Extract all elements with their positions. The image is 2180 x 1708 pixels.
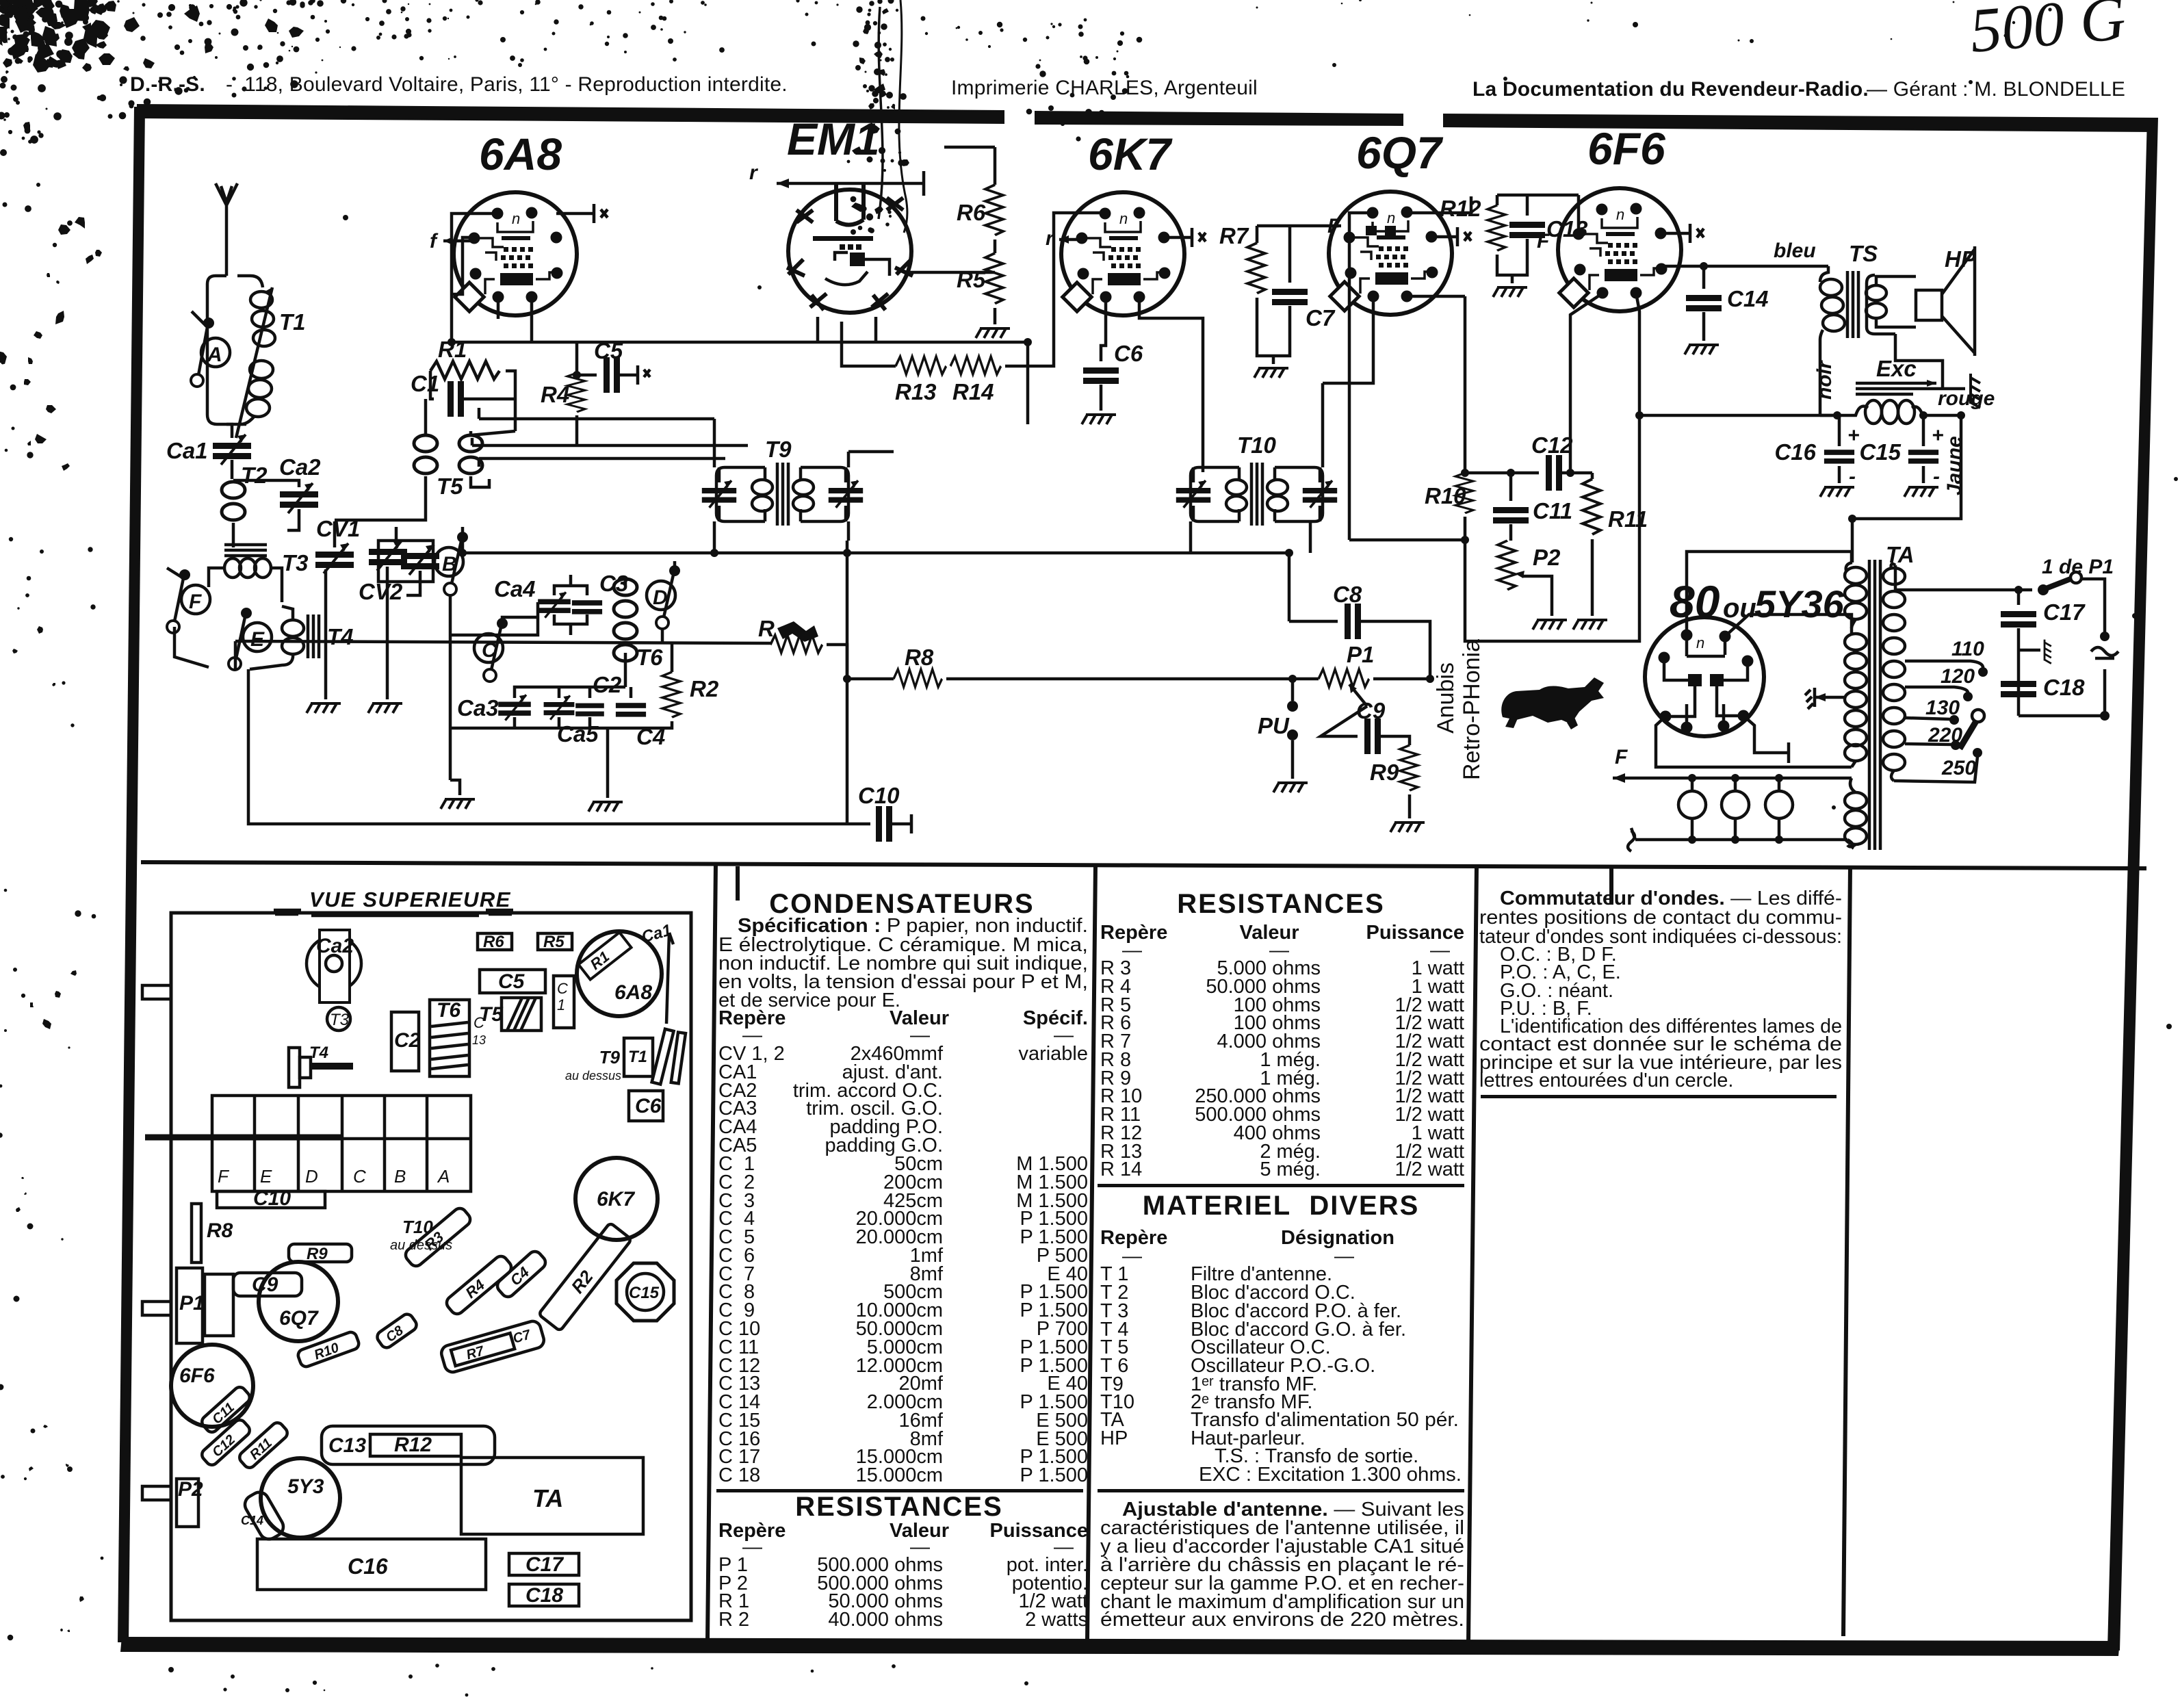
svg-text:-: - bbox=[1933, 465, 1940, 488]
svg-text:C17: C17 bbox=[525, 1553, 564, 1576]
svg-text:La Documentation du Revendeur-: La Documentation du Revendeur-Radio. bbox=[1472, 78, 1869, 101]
jaune wire to TA bbox=[1852, 415, 1961, 562]
svg-text:C8: C8 bbox=[1333, 582, 1362, 607]
wire secondary top to switch bbox=[1895, 565, 2032, 590]
svg-text:R8: R8 bbox=[207, 1219, 233, 1242]
svg-text:110: 110 bbox=[1951, 638, 1984, 660]
svg-text:R12: R12 bbox=[1440, 196, 1481, 221]
svg-text:HP: HP bbox=[1100, 1427, 1128, 1449]
svg-text:n: n bbox=[1696, 634, 1704, 651]
top bar segment 3 bbox=[1443, 114, 2157, 132]
svg-text:C12: C12 bbox=[209, 1432, 238, 1460]
svg-text:C11: C11 bbox=[1533, 498, 1572, 523]
R3 slanted bbox=[403, 1206, 473, 1269]
svg-text:6F6: 6F6 bbox=[1587, 123, 1666, 174]
tube 6K7 (chassis) bbox=[575, 1158, 658, 1240]
C6 box bbox=[629, 1091, 663, 1121]
svg-text:MATERIEL DIVERS: MATERIEL DIVERS bbox=[1143, 1191, 1420, 1221]
svg-text:Ca2: Ca2 bbox=[316, 935, 354, 957]
R9 box bbox=[289, 1244, 352, 1262]
top bar segment 1 bbox=[137, 104, 1004, 124]
wire E to bus bbox=[234, 641, 237, 669]
C17 box bbox=[509, 1553, 579, 1575]
Exc field coil bbox=[1820, 406, 1868, 415]
svg-text:C18: C18 bbox=[525, 1584, 563, 1607]
svg-text:250: 250 bbox=[1941, 757, 1976, 779]
svg-text:C6: C6 bbox=[1114, 341, 1143, 366]
coil T6 bbox=[624, 579, 627, 586]
svg-text:A: A bbox=[437, 1166, 450, 1187]
svg-text:noir: noir bbox=[1813, 359, 1836, 400]
svg-text:R4: R4 bbox=[462, 1276, 488, 1302]
svg-text:120: 120 bbox=[1941, 665, 1975, 688]
P1 (chassis) bbox=[177, 1268, 203, 1343]
svg-text:C: C bbox=[557, 980, 568, 997]
ground left bbox=[450, 780, 460, 795]
svg-text:R12: R12 bbox=[394, 1434, 432, 1456]
svg-text:TA: TA bbox=[1886, 542, 1915, 567]
svg-text:—: — bbox=[1334, 1245, 1354, 1267]
R4 slanted bbox=[444, 1254, 514, 1317]
coil T1 upper loops bbox=[250, 292, 275, 346]
svg-text:1: 1 bbox=[557, 996, 565, 1013]
svg-text:R6: R6 bbox=[483, 933, 504, 951]
wire 6K7 top pin to bus bbox=[1054, 213, 1105, 322]
svg-text:C15: C15 bbox=[1859, 439, 1901, 465]
svg-text:C2: C2 bbox=[593, 672, 622, 697]
svg-text:F: F bbox=[1615, 746, 1628, 768]
svg-text:P 1.500: P 1.500 bbox=[1020, 1464, 1088, 1486]
shaft tabs bbox=[142, 985, 171, 999]
wire 6A8 bottom pins bbox=[498, 297, 532, 342]
svg-text:R14: R14 bbox=[952, 379, 994, 404]
svg-text:C16: C16 bbox=[348, 1554, 388, 1579]
svg-text:Ca3: Ca3 bbox=[457, 695, 499, 721]
R8 rod bbox=[192, 1204, 201, 1263]
6F6 wires bbox=[1570, 293, 1603, 473]
node F switch bbox=[181, 585, 210, 614]
6K7 plate wire to T10 bbox=[1139, 297, 1203, 472]
svg-text:2 watts: 2 watts bbox=[1025, 1609, 1088, 1631]
6Q7 wires bbox=[1431, 227, 1471, 246]
vertical divider comm|blank bbox=[1841, 866, 1852, 1636]
R7 C7 slanted bbox=[439, 1319, 545, 1374]
svg-text:r: r bbox=[749, 161, 759, 184]
svg-text:T9: T9 bbox=[599, 1047, 621, 1067]
svg-text:R7: R7 bbox=[1219, 223, 1249, 248]
ground cap row bbox=[588, 802, 623, 812]
node E switch bbox=[243, 623, 272, 651]
svg-text:R2: R2 bbox=[690, 676, 719, 701]
capacitor Ca1 bbox=[226, 424, 232, 438]
vertical divider chassis|cond bbox=[705, 864, 718, 1641]
wire EM1 to R6 bbox=[910, 271, 995, 274]
TA primary windings left bbox=[1845, 562, 1867, 846]
svg-text:R6: R6 bbox=[957, 200, 986, 225]
wire to bottom bus bbox=[248, 669, 870, 824]
node A switch bbox=[201, 338, 230, 367]
bias bus bbox=[235, 641, 770, 643]
svg-text:C7: C7 bbox=[511, 1327, 532, 1346]
C15 octagon bbox=[617, 1263, 674, 1321]
svg-text:Jaune: Jaune bbox=[1943, 436, 1966, 495]
svg-text:VUE SUPERIEURE: VUE SUPERIEURE bbox=[309, 888, 511, 911]
svg-text:R11: R11 bbox=[247, 1436, 275, 1463]
bottom bar bbox=[120, 1637, 2120, 1656]
svg-text:C10: C10 bbox=[858, 783, 900, 808]
vertical divider res|comm bbox=[1466, 866, 1479, 1641]
svg-text:6K7: 6K7 bbox=[1088, 129, 1173, 179]
svg-text:T4: T4 bbox=[327, 624, 354, 649]
svg-text:T1: T1 bbox=[628, 1048, 647, 1066]
bus y500 from 6A8 to 6K7 bbox=[452, 342, 1028, 424]
svg-text:R13: R13 bbox=[895, 379, 937, 404]
svg-text:RESISTANCES: RESISTANCES bbox=[795, 1492, 1003, 1522]
top bar segment 2 bbox=[1035, 111, 1403, 126]
svg-text:5 még.: 5 még. bbox=[1260, 1159, 1321, 1180]
svg-text:R 2: R 2 bbox=[718, 1609, 749, 1631]
right border bbox=[2107, 118, 2158, 1651]
R6 box bbox=[478, 933, 512, 950]
R2 slanted big bbox=[538, 1223, 632, 1332]
coil T2 bbox=[222, 482, 245, 520]
tube 6Q7 (chassis) bbox=[259, 1262, 338, 1341]
svg-text:P1: P1 bbox=[179, 1292, 205, 1315]
tube 6F6 bbox=[1558, 188, 1681, 311]
tube 6Q7 bbox=[1329, 192, 1452, 315]
C4 slanted bbox=[495, 1249, 548, 1299]
svg-text:-: - bbox=[1849, 465, 1856, 488]
tube EM1 (magic eye) bbox=[787, 183, 913, 313]
svg-text:T2: T2 bbox=[241, 463, 268, 488]
svg-text:P2: P2 bbox=[1533, 545, 1561, 570]
svg-text:6K7: 6K7 bbox=[597, 1188, 635, 1211]
svg-text:6Q7: 6Q7 bbox=[279, 1307, 319, 1330]
svg-text:C: C bbox=[473, 1014, 484, 1031]
svg-text:C: C bbox=[353, 1166, 366, 1187]
svg-text:C9: C9 bbox=[252, 1273, 278, 1296]
svg-text:6F6: 6F6 bbox=[179, 1364, 215, 1387]
svg-text:C10: C10 bbox=[253, 1187, 291, 1210]
arrow through T1 bbox=[236, 287, 272, 438]
trimmer Ca2 (chassis) bbox=[307, 936, 361, 991]
C11 C12 R11 slanted bbox=[200, 1385, 252, 1435]
svg-text:F: F bbox=[189, 591, 202, 613]
junction dots bbox=[447, 338, 1965, 683]
C18 box bbox=[509, 1584, 579, 1606]
AC mains symbol bbox=[2100, 632, 2110, 641]
AVC bus bbox=[463, 541, 1289, 553]
node B switch bbox=[434, 547, 463, 576]
svg-text:Ca1: Ca1 bbox=[166, 438, 208, 463]
svg-text:C 18: C 18 bbox=[718, 1464, 760, 1486]
wire stub crossing divider right bbox=[1609, 866, 1613, 905]
C2 box bbox=[391, 1012, 419, 1071]
svg-text:13: 13 bbox=[472, 1033, 486, 1047]
svg-text:D: D bbox=[305, 1166, 318, 1187]
svg-text:A: A bbox=[207, 344, 222, 366]
T6 box hatched bbox=[430, 1000, 469, 1076]
svg-text:TS: TS bbox=[1849, 241, 1878, 266]
svg-text:rouge: rouge bbox=[1938, 387, 1995, 410]
svg-text:15.000cm: 15.000cm bbox=[856, 1464, 943, 1486]
svg-text:- 118, Boulevard Voltaire, Pa: - 118, Boulevard Voltaire, Paris, 11° - … bbox=[226, 73, 788, 96]
svg-text:C2: C2 bbox=[394, 1029, 421, 1052]
R10 slanted bbox=[296, 1330, 360, 1368]
svg-text:ou: ou bbox=[1723, 593, 1756, 623]
svg-text:1/2 watt: 1/2 watt bbox=[1394, 1159, 1464, 1180]
svg-text:T6: T6 bbox=[437, 999, 460, 1022]
chassis outline bbox=[171, 913, 691, 1620]
svg-text:émetteur aux environs de 220 m: émetteur aux environs de 220 mètres. bbox=[1100, 1609, 1464, 1631]
6A8 top tick bbox=[556, 204, 608, 223]
node D switch bbox=[647, 581, 675, 610]
C14 small bbox=[242, 1489, 287, 1543]
svg-text:Ca2: Ca2 bbox=[279, 454, 321, 480]
mid divider between schematic and tables bbox=[141, 860, 2146, 870]
antenna bbox=[216, 183, 237, 276]
svg-text:R5: R5 bbox=[957, 267, 986, 292]
svg-text:R11: R11 bbox=[1608, 506, 1648, 532]
transformer T4 bbox=[282, 620, 304, 654]
C10 box bbox=[217, 1191, 325, 1208]
svg-text:lettres entourées d'un cercle.: lettres entourées d'un cercle. bbox=[1479, 1070, 1733, 1091]
svg-text:T3: T3 bbox=[330, 1011, 350, 1029]
node C switch bbox=[474, 634, 503, 662]
svg-text:R8: R8 bbox=[905, 645, 934, 670]
B+ wire bbox=[1639, 414, 1837, 417]
C13 R12 assembly bbox=[322, 1426, 495, 1464]
svg-text:C13: C13 bbox=[1546, 216, 1588, 242]
C9 box bbox=[233, 1273, 302, 1296]
coil T1 lower loops bbox=[246, 361, 273, 417]
T3 (chassis) bbox=[327, 1007, 350, 1031]
C8 slanted bbox=[375, 1312, 419, 1350]
svg-text:— Gérant : M. BLONDELLE: — Gérant : M. BLONDELLE bbox=[1867, 78, 2125, 101]
tube 6F6 (chassis) bbox=[171, 1345, 253, 1427]
svg-text:C14: C14 bbox=[1727, 286, 1769, 311]
svg-text:PU: PU bbox=[1258, 713, 1290, 738]
coil T5 bbox=[426, 399, 515, 435]
rectifier wires bbox=[1687, 552, 1852, 635]
svg-text:C17: C17 bbox=[2043, 599, 2086, 625]
svg-text:Ca4: Ca4 bbox=[494, 576, 536, 601]
svg-text:R 14: R 14 bbox=[1100, 1159, 1142, 1180]
svg-text:T5: T5 bbox=[437, 474, 463, 499]
svg-text:T10: T10 bbox=[1237, 432, 1277, 458]
svg-text:RESISTANCES: RESISTANCES bbox=[1177, 889, 1385, 919]
svg-text:C7: C7 bbox=[1306, 305, 1336, 331]
svg-text:C13: C13 bbox=[328, 1434, 366, 1457]
TA box bbox=[461, 1458, 643, 1534]
tube 6K7 bbox=[1061, 192, 1184, 315]
svg-text:C6: C6 bbox=[635, 1095, 662, 1117]
cap row wires bbox=[450, 674, 631, 798]
svg-text:C15: C15 bbox=[629, 1284, 660, 1302]
svg-text:Imprimerie CHARLES, Argenteuil: Imprimerie CHARLES, Argenteuil bbox=[951, 77, 1258, 99]
capacitor CV1 (variable) bbox=[333, 521, 337, 547]
Ca1 (chassis) bbox=[640, 921, 674, 946]
svg-text:C14: C14 bbox=[241, 1514, 263, 1527]
svg-text:Anubis: Anubis bbox=[1433, 662, 1459, 734]
TA center tap ground bbox=[1815, 696, 1845, 699]
transformer T3 iron core bbox=[224, 545, 267, 556]
svg-text:P1: P1 bbox=[1347, 642, 1374, 667]
C16 box bbox=[257, 1539, 486, 1590]
svg-text:EXC : Excitation 1.300 ohms.: EXC : Excitation 1.300 ohms. bbox=[1199, 1464, 1462, 1486]
svg-text:R9: R9 bbox=[1370, 760, 1399, 785]
svg-text:T6: T6 bbox=[636, 645, 663, 670]
svg-text:R5: R5 bbox=[543, 933, 565, 951]
svg-text:au dessus: au dessus bbox=[565, 1069, 621, 1083]
wire EM1 bottom stubs bbox=[818, 317, 876, 342]
svg-text:C18: C18 bbox=[2043, 675, 2085, 700]
C1 box bbox=[554, 976, 574, 1028]
vertical divider cond|res bbox=[1085, 865, 1098, 1641]
svg-text:C5: C5 bbox=[498, 970, 525, 993]
svg-text:5Y36: 5Y36 bbox=[1754, 582, 1845, 625]
dial frame bbox=[212, 1096, 471, 1191]
noir label bbox=[1813, 359, 1836, 400]
svg-text:F: F bbox=[218, 1166, 230, 1187]
left border bbox=[118, 107, 145, 1642]
svg-text:T1: T1 bbox=[279, 309, 306, 335]
svg-text:R9: R9 bbox=[307, 1245, 328, 1263]
tube 5Y3 (chassis) bbox=[261, 1458, 340, 1538]
wires 6A8 left loop bbox=[452, 213, 497, 342]
wire stub crossing divider left bbox=[736, 866, 740, 901]
wire 6Q7 top pin to R12 bbox=[1407, 196, 1471, 213]
svg-text:T9: T9 bbox=[765, 437, 792, 462]
selector lever bbox=[1972, 710, 1984, 722]
svg-text:6A8: 6A8 bbox=[479, 129, 562, 179]
svg-text:f: f bbox=[430, 230, 439, 253]
svg-text:500 G: 500 G bbox=[1967, 0, 2128, 66]
C5 box bbox=[480, 970, 545, 993]
svg-text:C16: C16 bbox=[1774, 439, 1816, 465]
Anubis Retro-PHonia logo bbox=[1433, 662, 1459, 734]
P2 (chassis) bbox=[177, 1479, 198, 1527]
svg-text:B: B bbox=[394, 1166, 406, 1187]
svg-text:+: + bbox=[1932, 424, 1944, 447]
T1 box bbox=[624, 1038, 653, 1076]
svg-text:bleu: bleu bbox=[1774, 240, 1816, 262]
svg-text:6A8: 6A8 bbox=[614, 981, 652, 1004]
svg-text:5Y3: 5Y3 bbox=[287, 1475, 324, 1498]
capacitor CV2 (variable) bbox=[395, 527, 398, 545]
TA secondary windings right bbox=[1883, 564, 1905, 781]
tube 6A8 bbox=[454, 192, 577, 315]
svg-text:Ca5: Ca5 bbox=[557, 721, 599, 747]
svg-text:Retro-PHonia: Retro-PHonia bbox=[1459, 639, 1485, 780]
bus wires left-middle bbox=[472, 408, 748, 467]
svg-text:T3: T3 bbox=[282, 550, 309, 575]
svg-text:R: R bbox=[758, 616, 775, 641]
tube 6A8 (chassis) bbox=[577, 931, 662, 1016]
svg-text:E: E bbox=[260, 1166, 272, 1187]
capacitor Ca2 bbox=[233, 480, 299, 487]
T1 antenna coil loop bbox=[207, 276, 246, 424]
small ground between C17-C18 bbox=[2019, 649, 2040, 652]
R5 box bbox=[538, 933, 572, 950]
svg-text:variable: variable bbox=[1018, 1043, 1088, 1065]
svg-text:40.000 ohms: 40.000 ohms bbox=[828, 1609, 943, 1631]
svg-text:C12: C12 bbox=[1531, 432, 1573, 458]
svg-text:6Q7: 6Q7 bbox=[1356, 127, 1444, 178]
svg-text:C1: C1 bbox=[411, 371, 439, 396]
svg-text:EM1: EM1 bbox=[787, 114, 880, 164]
svg-text:+: + bbox=[1847, 424, 1860, 447]
T5 box hatched bbox=[502, 998, 541, 1031]
svg-text:P2: P2 bbox=[178, 1478, 203, 1501]
svg-text:TA: TA bbox=[532, 1484, 563, 1512]
svg-text:E: E bbox=[250, 628, 265, 651]
